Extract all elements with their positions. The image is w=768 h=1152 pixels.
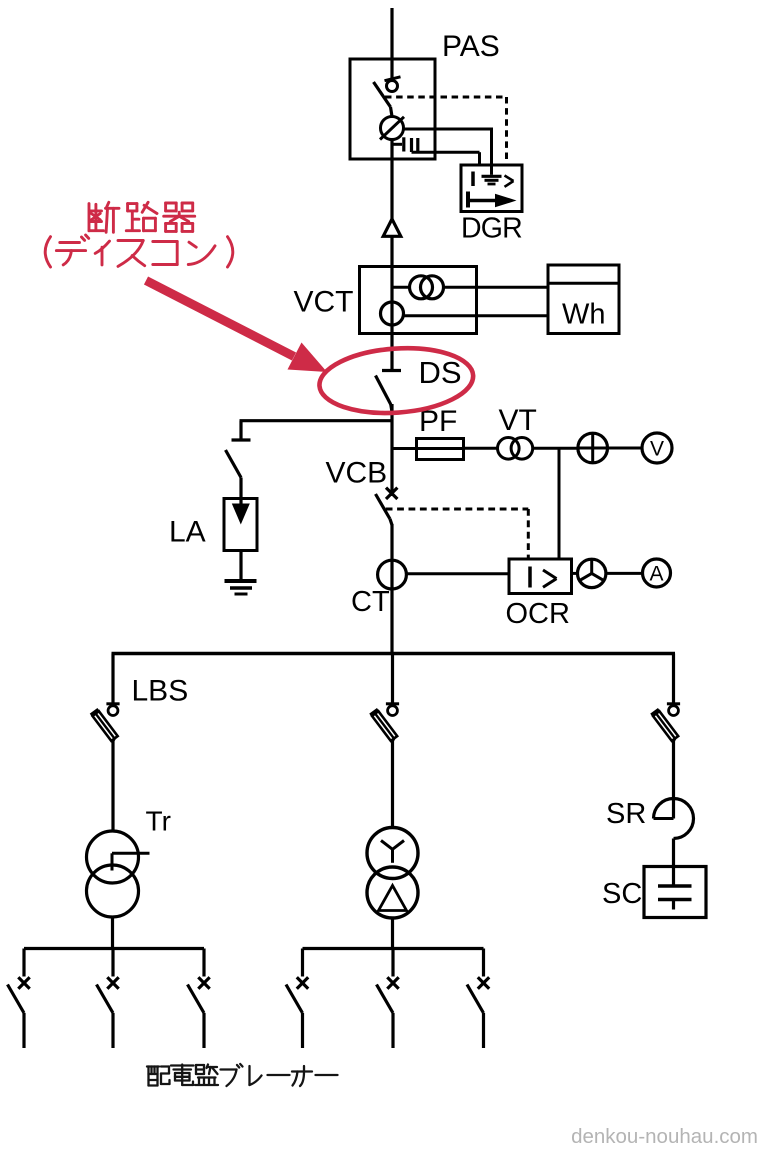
- SR series reactor: [654, 817, 674, 820]
- left panel bus: [24, 947, 204, 950]
- VCT CT circles: [410, 276, 433, 299]
- OCR relay box: [509, 559, 572, 594]
- PAS enclosure box: [350, 59, 435, 159]
- wire incoming feeder top: [390, 8, 393, 79]
- svg-text:OCR: OCR: [506, 598, 570, 630]
- svg-text:PAS: PAS: [442, 30, 500, 63]
- red annotation text (disukon) katakana: [45, 237, 50, 267]
- breaker x=204: [202, 949, 205, 977]
- DGR internals: trip arrow: [466, 192, 470, 208]
- LA arrow head: [232, 504, 250, 525]
- wire LBS to transformer: [391, 740, 394, 828]
- DGR relay box: [461, 165, 522, 212]
- VS voltmeter switch: [578, 433, 608, 463]
- svg-text:A: A: [649, 563, 663, 586]
- svg-text:VT: VT: [499, 404, 537, 437]
- wire Tr to left panel bus: [111, 917, 114, 949]
- OCR internals I>: [528, 567, 532, 588]
- PAS switch contact circle: [387, 81, 398, 92]
- svg-text:LA: LA: [169, 516, 206, 549]
- red annotation text danroki (kanji): [89, 202, 119, 232]
- wire DS to junction and VCB: [391, 405, 392, 413]
- V voltmeter: [642, 433, 672, 463]
- Tr winding mark: [111, 853, 114, 870]
- PF fuse: [392, 447, 464, 450]
- wire VCB to CT: [390, 524, 393, 589]
- wire capacitor to DGR: [412, 151, 480, 154]
- svg-text:SR: SR: [606, 798, 646, 830]
- wire LBS to Tr: [111, 740, 114, 831]
- wire AS to A meter: [606, 572, 643, 575]
- breaker x=24: [22, 949, 25, 977]
- DS blade: [376, 376, 391, 405]
- LA switch T-bar: [232, 438, 251, 441]
- wire VT to VS: [533, 447, 578, 450]
- arrester gap triangle: [383, 219, 401, 236]
- wire PAS down through arrester gap: [390, 140, 393, 221]
- svg-text:DGR: DGR: [461, 213, 522, 245]
- wire SR to SC: [672, 839, 675, 867]
- SC capacitor symbol: [672, 867, 675, 887]
- LA switch blade: [226, 450, 242, 478]
- SC capacitor box: [644, 867, 706, 918]
- wire VCT CT row to Wh: [392, 286, 410, 289]
- wire VS to V meter: [608, 447, 643, 450]
- svg-text:VCB: VCB: [326, 457, 388, 490]
- DS disconnector T-bar: [382, 369, 401, 372]
- svg-text:VCT: VCT: [294, 285, 354, 318]
- svg-text:denkou-nouhau.com: denkou-nouhau.com: [571, 1125, 758, 1148]
- svg-text:SC: SC: [602, 878, 642, 910]
- LA branch wire down: [239, 421, 242, 439]
- CT circle: [378, 560, 407, 589]
- Y winding mark: [391, 849, 394, 863]
- dashed control wire PAS to DGR: [385, 96, 507, 99]
- middle panel bus: [303, 947, 484, 950]
- transformer Y-delta circles: [367, 828, 418, 879]
- AS ammeter switch: [578, 559, 606, 587]
- svg-text:CT: CT: [351, 586, 390, 618]
- wire ZCT to DGR: [404, 128, 492, 131]
- breaker x=483.5: [482, 949, 485, 977]
- breaker x=113: [111, 949, 114, 977]
- svg-text:DS: DS: [419, 355, 462, 390]
- red arrow annotation: [146, 281, 294, 357]
- wire bus drop x=673.5: [672, 654, 675, 704]
- wire CT down to bus: [390, 589, 393, 654]
- capacitor symbol inside PAS (SOG sensor): [392, 143, 402, 146]
- wire bus drop x=113: [111, 654, 114, 704]
- breaker x=302.5: [301, 949, 304, 977]
- wire transformer to mid panel bus: [391, 918, 394, 949]
- LA ground: [225, 579, 257, 583]
- wire triangle to VCT: [390, 236, 393, 370]
- svg-text:Tr: Tr: [146, 806, 171, 837]
- Wh meter box: [548, 265, 619, 334]
- LBS switch x=113: T-bar, contact circle, fuse: [106, 702, 119, 705]
- svg-text:LBS: LBS: [132, 675, 189, 708]
- PAS switch blade: [374, 82, 391, 107]
- wire LBS to SR: [672, 740, 675, 819]
- A ammeter: [643, 559, 671, 587]
- svg-text:Wh: Wh: [562, 299, 606, 331]
- delta winding mark: [379, 886, 407, 911]
- dashed trip wire VCB to OCR: [386, 508, 529, 511]
- red ellipse highlight around DS: [317, 343, 475, 418]
- main bus: [112, 652, 676, 655]
- VCB blade: [376, 494, 391, 519]
- label haidenban breaker (kanji+katakana): [147, 1067, 170, 1086]
- wire blade to LA box: [239, 478, 242, 518]
- breaker x=393: [391, 949, 394, 977]
- wire LA box to ground: [239, 551, 242, 582]
- LBS switch x=392.5: T-bar, contact circle, fuse: [386, 702, 399, 705]
- VCT VT circle: [381, 302, 404, 325]
- VT circles: [498, 438, 520, 460]
- wire PF to VT: [464, 447, 498, 450]
- wire bus drop x=392.5: [391, 654, 394, 704]
- VCB x contact: [386, 488, 397, 499]
- node junction LA branch: [240, 419, 393, 422]
- wire CT to OCR: [406, 572, 509, 575]
- DGR internals: I, ground, >: [471, 172, 475, 187]
- ZCT circle: [381, 117, 404, 140]
- wire junction down to OCR: [558, 448, 561, 559]
- svg-text:V: V: [650, 438, 664, 461]
- LBS switch x=673.5: T-bar, contact circle, fuse: [667, 702, 680, 705]
- transformer Tr circles: [87, 831, 139, 883]
- LA arrester box: [224, 499, 257, 551]
- wire OCR to AS: [572, 572, 579, 575]
- VCT box: [360, 267, 477, 334]
- wire VCT VT row to Wh: [403, 314, 549, 317]
